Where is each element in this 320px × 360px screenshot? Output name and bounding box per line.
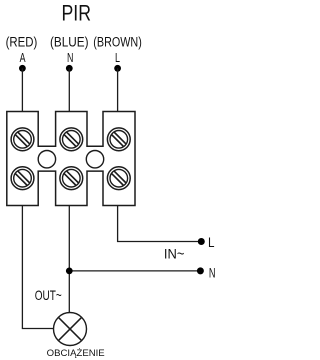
lamp (load) circle xyxy=(54,313,87,346)
svg-text:OBCIĄŻENIE: OBCIĄŻENIE xyxy=(47,348,105,358)
wire N dot to block xyxy=(68,68,70,111)
svg-text:OUT~: OUT~ xyxy=(35,288,62,303)
svg-text:A: A xyxy=(20,50,26,65)
svg-text:(RED): (RED) xyxy=(6,34,38,49)
svg-text:L: L xyxy=(115,50,120,65)
svg-text:IN~: IN~ xyxy=(164,247,185,262)
terminal screw 2 top xyxy=(60,128,83,151)
terminal dot L (IN) xyxy=(198,238,205,245)
svg-text:L: L xyxy=(208,234,215,250)
wire N junction to N terminal xyxy=(69,270,200,272)
svg-text:(BLUE): (BLUE) xyxy=(50,34,89,49)
terminal block TB1 outline xyxy=(7,112,135,206)
terminal screw 2 bottom xyxy=(60,167,83,190)
terminal block hole 1 xyxy=(38,151,55,168)
wire N block down to lamp top xyxy=(68,206,70,313)
junction dot on N wire xyxy=(66,268,73,275)
wire A dot to block xyxy=(21,68,23,111)
svg-text:(BROWN): (BROWN) xyxy=(93,34,142,49)
lamp X stroke 1 xyxy=(58,317,81,340)
node L terminal dot xyxy=(114,65,121,72)
svg-text:PIR: PIR xyxy=(62,1,92,26)
wire L dot to block xyxy=(117,68,119,111)
terminal screw 3 top xyxy=(107,128,130,151)
terminal block hole 2 xyxy=(86,151,103,168)
terminal screw 3 bottom xyxy=(107,167,130,190)
terminal screw 1 top xyxy=(11,128,34,151)
lamp X stroke 2 xyxy=(58,317,81,340)
node A terminal dot xyxy=(19,65,26,72)
wire A block to lamp (down then right) xyxy=(22,206,53,329)
node N terminal dot xyxy=(66,65,73,72)
wire L block down then right to L terminal xyxy=(118,206,202,242)
terminal dot N (IN) xyxy=(197,267,204,274)
svg-text:N: N xyxy=(67,50,73,65)
svg-text:N: N xyxy=(209,265,216,280)
terminal screw 1 bottom xyxy=(11,167,34,190)
